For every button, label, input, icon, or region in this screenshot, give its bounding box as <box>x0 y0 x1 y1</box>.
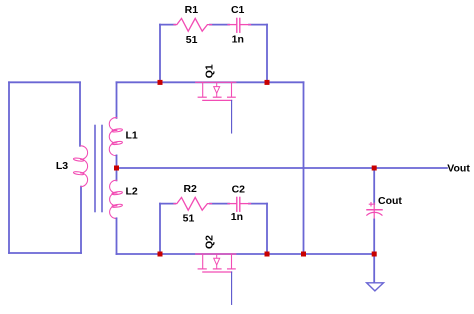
wire bottom rail to ground <box>373 254 375 282</box>
wire L2 bottom to bottom rail <box>116 218 118 254</box>
capacitor C2 <box>228 197 251 211</box>
wire primary bottom-left horizontal <box>9 252 81 254</box>
svg-text:Vout: Vout <box>447 163 470 175</box>
transformer core line 2 <box>101 126 103 212</box>
wire Q1 gate stub <box>231 100 233 133</box>
wire snubber1 left vertical <box>159 25 161 83</box>
inductor L3 <box>73 146 87 187</box>
svg-text:C2: C2 <box>232 184 246 196</box>
transistor Q2 <box>196 254 236 272</box>
wire L1 bottom to center tap <box>116 155 118 168</box>
wire snubber2 between R2 and C2 <box>210 203 229 205</box>
svg-text:L2: L2 <box>125 185 137 197</box>
wire Vout node to Cout <box>373 168 375 204</box>
wire center tap to L2 <box>116 168 118 180</box>
wire primary left vertical <box>8 82 10 253</box>
ground <box>367 283 384 291</box>
wire secondary bottom rail <box>117 253 375 255</box>
junction center tap <box>114 166 119 171</box>
wire secondary top rail <box>117 81 304 83</box>
junction bottom rail right vertical <box>301 252 306 257</box>
junction bottom rail C2 loop <box>265 252 270 257</box>
junction Vout Cout <box>372 166 377 171</box>
svg-text:L3: L3 <box>56 160 68 172</box>
svg-text:C1: C1 <box>231 4 245 16</box>
wire snubber1 top left segment <box>160 24 175 26</box>
wire output rail Vout <box>117 167 447 169</box>
junction top rail C1 loop <box>265 80 270 85</box>
wire snubber2 left vertical <box>159 204 161 254</box>
svg-text:Cout: Cout <box>378 195 402 207</box>
svg-text:1n: 1n <box>231 211 243 223</box>
wire snubber2 right segment <box>249 203 267 205</box>
svg-text:51: 51 <box>186 34 198 46</box>
resistor R2 <box>174 197 212 210</box>
wire snubber1 between R1 and C1 <box>210 24 229 26</box>
junction bottom rail Cout ground <box>372 252 377 257</box>
wire primary down to L3 top <box>79 82 81 146</box>
wire right vertical <box>303 82 305 254</box>
junction top rail R1 loop <box>158 80 163 85</box>
svg-text:51: 51 <box>183 213 195 225</box>
transistor Q1 <box>196 82 236 100</box>
wire primary top-left horizontal <box>9 81 80 83</box>
capacitor C1 <box>228 18 251 32</box>
wire secondary rail down to L1 <box>116 82 118 118</box>
junction bottom rail R2 loop <box>158 252 163 257</box>
svg-text:L1: L1 <box>125 129 137 141</box>
svg-text:R1: R1 <box>185 4 199 16</box>
wire snubber1 right segment <box>249 24 267 26</box>
wire snubber2 top left segment <box>160 203 175 205</box>
svg-text:Q1: Q1 <box>204 64 216 78</box>
capacitor Cout <box>367 203 382 220</box>
resistor R1 <box>174 18 212 31</box>
inductor L1 <box>109 118 122 156</box>
svg-text:R2: R2 <box>183 183 197 195</box>
inductor L2 <box>110 180 123 218</box>
wire L3 bottom to primary bottom <box>80 187 82 253</box>
svg-text:Q2: Q2 <box>204 235 216 249</box>
wire snubber2 right vertical <box>266 204 268 254</box>
svg-text:1n: 1n <box>232 34 244 46</box>
wire Cout to bottom rail <box>373 220 375 255</box>
wire snubber1 right vertical <box>266 25 268 83</box>
transformer core line 1 <box>94 126 96 212</box>
wire Q2 gate stub <box>231 272 233 304</box>
